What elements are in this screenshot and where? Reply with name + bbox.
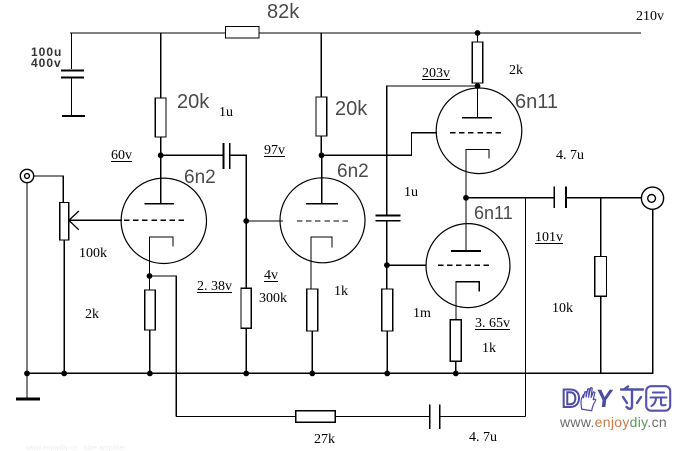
potentiometer 100k bottom lead <box>63 240 65 373</box>
label 20k first <box>177 92 209 112</box>
ground rail junction dot 1k V4 <box>453 371 459 377</box>
resistor 20k (second stage anode) top lead <box>320 33 322 97</box>
resistor 1k (V4 cathode) <box>450 320 461 362</box>
resistor 1m bottom lead <box>386 331 388 373</box>
capacitor 4.7u (feedback) plates <box>429 404 431 429</box>
label 60v <box>111 149 132 163</box>
ground symbol <box>26 373 28 399</box>
label 82k <box>267 2 299 22</box>
tube V1 anode lead <box>160 155 162 204</box>
tube V4 grid dashed <box>438 264 490 266</box>
resistor 20k bottom lead to node 60v <box>160 137 162 156</box>
resistor 20k (second stage) <box>316 97 327 136</box>
label 1m <box>413 307 431 321</box>
label 20k second <box>335 99 367 119</box>
resistor 20k (first stage anode) top lead <box>160 33 162 98</box>
tube V1 cathode <box>150 237 174 276</box>
tube V4 anode lead <box>465 198 467 251</box>
watermark logo character YUAN <box>645 385 672 413</box>
label 203v <box>422 67 450 81</box>
ground rail junction dot 300k <box>243 371 249 377</box>
label 6n2 first <box>184 168 216 187</box>
label 1k V4 <box>482 342 496 356</box>
wire capacitor 4.7u to output jack <box>566 197 642 199</box>
node 60v junction dot <box>158 152 164 158</box>
resistor 1k bottom lead <box>455 361 457 373</box>
label 6n2 second <box>337 162 369 181</box>
resistor 2k bottom lead to node 203v <box>477 83 479 87</box>
label 10k <box>552 302 573 316</box>
label 3.65v <box>475 317 510 331</box>
watermark logo D <box>562 387 580 412</box>
wire node 60v to capacitor 1u <box>161 154 224 156</box>
node V3 cathode output junction dot <box>463 195 469 201</box>
resistor 2k cathode lead <box>149 276 151 290</box>
tube V4 cathode <box>456 282 479 320</box>
faint footer text <box>26 445 125 451</box>
tube V2 grid dashed <box>297 220 348 222</box>
tube V1 6n2 envelope <box>121 178 206 263</box>
wire V2 grid node to tube <box>246 220 283 222</box>
capacitor 4.7u (output) plates <box>553 187 555 209</box>
node V1 cathode junction dot <box>147 273 153 279</box>
potentiometer 100k body <box>60 203 69 241</box>
wire output line V3 cathode to capacitor 4.7u <box>466 197 554 199</box>
tube V3 grid dashed <box>450 132 503 134</box>
resistor 300k <box>241 288 251 328</box>
label 6n11 second <box>474 204 513 222</box>
label 97v <box>264 144 285 158</box>
wire top B+ rail right segment to 210v <box>259 32 641 34</box>
node V2 grid junction dot <box>243 218 249 224</box>
output jack outer <box>641 187 663 209</box>
wire node 97v to V3 grid <box>321 133 437 156</box>
label 4.7u feedback <box>469 431 497 445</box>
watermark url <box>560 415 667 429</box>
node B+ / 2k junction dot <box>475 30 481 36</box>
label 1k V2 <box>334 285 348 299</box>
capacitor 100u 400v plates <box>61 70 84 72</box>
label 1u first <box>219 106 233 120</box>
wire capacitor 1u to V2 grid node <box>230 155 246 221</box>
resistor 20k (first stage anode) <box>155 98 166 137</box>
resistor 10k top lead <box>600 198 602 257</box>
node V4 grid junction dot <box>384 262 390 268</box>
resistor 2k (V3 anode) top lead <box>477 33 479 42</box>
resistor 20k bottom lead to node 97v <box>320 136 322 156</box>
wire output jack sleeve to ground rail <box>652 209 654 373</box>
feedback rail middle segment <box>335 416 430 418</box>
input jack outer <box>20 169 33 182</box>
watermark logo Y <box>595 387 614 412</box>
tube V2 cathode <box>311 237 332 289</box>
label 100u 400v <box>31 47 62 69</box>
label 2k V1 cathode <box>85 308 99 322</box>
ground rail junction dot 1k <box>309 371 315 377</box>
resistor 300k bottom lead to ground rail <box>245 328 247 373</box>
tube V2 anode plate <box>306 203 338 205</box>
resistor 27k <box>296 411 336 423</box>
potentiometer wiper arrow <box>69 211 79 230</box>
label 6n11 first <box>515 92 558 112</box>
capacitor 100u 400v bottom lead <box>71 79 73 117</box>
tube V2 6n2 envelope <box>280 178 365 263</box>
resistor 2k (V3 anode) <box>472 42 483 83</box>
label 4v <box>264 269 278 283</box>
ground rail <box>27 372 654 374</box>
resistor 2k bottom lead <box>149 330 151 373</box>
feedback rail left segment <box>176 416 296 418</box>
label 210v <box>636 10 664 24</box>
label 1u second <box>404 186 418 200</box>
wire node 203v to capacitor 1u (second) <box>387 86 478 215</box>
output jack inner <box>648 195 656 203</box>
ground rail junction dot input <box>24 371 30 377</box>
wire input jack sleeve to ground rail <box>26 183 28 374</box>
label 2k top <box>509 64 523 78</box>
tube V1 grid dashed <box>124 219 187 221</box>
label 100k <box>79 247 107 261</box>
ground rail junction dot 1m <box>384 371 390 377</box>
resistor 10k <box>595 257 607 297</box>
tube V1 anode plate <box>144 203 174 205</box>
label 300k <box>259 292 287 306</box>
tube V4 anode plate <box>451 250 481 252</box>
ground rail junction dot 2k <box>147 371 153 377</box>
label 101v <box>535 231 563 245</box>
label 2.38v <box>197 280 232 294</box>
capacitor 1u (interstage 1) plates <box>223 143 225 169</box>
wire wiper to V1 grid <box>69 219 122 221</box>
capacitor 1u lower lead to V4 grid node <box>386 221 388 289</box>
wire V4 grid node to tube <box>387 264 426 266</box>
wire V1 cathode to feedback rail <box>150 276 177 417</box>
ground rail junction dot pot <box>61 371 67 377</box>
input jack inner <box>25 174 30 179</box>
resistor 1m <box>382 289 393 331</box>
tube V3 cathode <box>466 150 489 198</box>
resistor 1k bottom lead <box>311 331 313 373</box>
resistor 300k grid leak leads <box>245 221 247 288</box>
resistor 10k bottom lead <box>600 296 602 373</box>
wire input jack to potentiometer <box>34 176 64 203</box>
wire top B+ rail left segment <box>70 32 226 34</box>
tube V3 anode lead <box>477 86 479 118</box>
capacitor 100u 400v end terminal bar <box>62 115 85 117</box>
label 4.7u output <box>556 149 584 163</box>
capacitor 1u (interstage 2) plates <box>376 215 401 217</box>
watermark logo hand <box>577 385 600 413</box>
tube V4 6n11 envelope <box>426 224 510 308</box>
resistor 1k (V2 cathode) <box>307 289 318 331</box>
wire feedback takeoff down <box>525 198 527 417</box>
resistor 82k <box>226 27 260 39</box>
label 27k <box>314 433 335 447</box>
tube V3 anode plate <box>462 117 492 119</box>
node 97v junction dot <box>319 152 325 158</box>
watermark logo character LE <box>618 385 646 413</box>
capacitor 100u 400v top lead <box>71 33 73 69</box>
node 203v junction dot <box>475 83 481 89</box>
resistor 2k <box>145 290 155 330</box>
tube V3 6n11 envelope <box>436 88 522 174</box>
tube V2 anode lead <box>321 155 323 204</box>
feedback rail right segment <box>440 416 526 418</box>
